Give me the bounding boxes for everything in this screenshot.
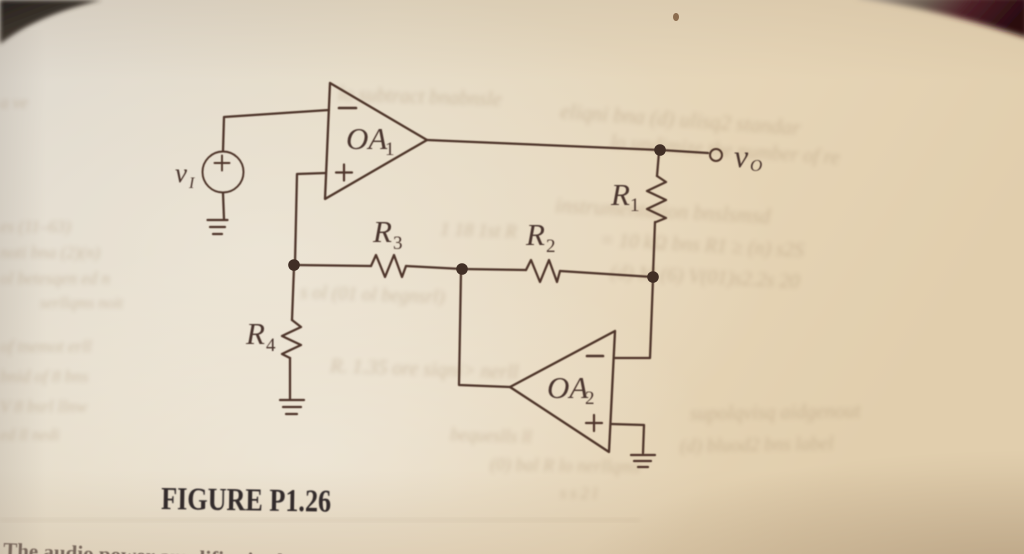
wire R4 bottom to ground	[289, 358, 291, 399]
svg-text:OA: OA	[346, 121, 388, 156]
wire OA2 output to node C	[459, 271, 510, 387]
svg-text:noti bna (2)(n): noti bna (2)(n)	[0, 243, 100, 262]
svg-text:es (11–63): es (11–63)	[0, 217, 71, 236]
svg-text:3: 3	[393, 233, 403, 254]
svg-text:supolqvisq aidgenout: supolqvisq aidgenout	[690, 400, 861, 425]
svg-text:V 8 bsrl llnw: V 8 bsrl llnw	[0, 397, 88, 416]
svg-text:1 18 1st R: 1 18 1st R	[440, 219, 518, 243]
svg-text:ed ll nedi: ed ll nedi	[0, 427, 60, 444]
svg-text:OA: OA	[547, 370, 589, 405]
svg-text:(d) bluod2 bns label: (d) bluod2 bns label	[680, 433, 834, 457]
plus sign inside vI	[215, 156, 230, 171]
plus sign OA2 input	[586, 415, 602, 431]
voltage source vI circle	[203, 152, 244, 193]
svg-text:bnid of 8 bns: bnid of 8 bns	[0, 367, 89, 386]
wire node A down to R1	[657, 152, 659, 176]
ground at OA2 plus	[631, 455, 655, 467]
wire OA2 plus input to ground stub	[611, 424, 644, 453]
plus sign OA1 input	[336, 165, 352, 181]
wire node D down to R4	[292, 267, 294, 320]
svg-text:2: 2	[585, 388, 595, 409]
svg-text:bequeslls ll: bequeslls ll	[450, 424, 532, 447]
wire OA1 output to node A	[427, 140, 660, 150]
resistor R2	[526, 260, 560, 282]
ground under vI	[208, 220, 228, 234]
wire node B down to OA2 minus input	[615, 279, 653, 358]
node B dot	[647, 271, 659, 283]
svg-text:serllqms noit: serllqms noit	[40, 295, 124, 312]
svg-text:v: v	[175, 158, 187, 188]
wire R2 to node C	[462, 269, 526, 270]
svg-text:(0) bal R lo nerllqms: (0) bal R lo nerllqms	[490, 454, 640, 478]
svg-text:s s 2 l: s s 2 l	[560, 485, 598, 503]
wire R3 to node D	[294, 265, 371, 266]
wire source bottom stub	[223, 193, 224, 219]
svg-text:2: 2	[546, 236, 556, 257]
op-amp OA2 triangle	[510, 331, 615, 452]
resistor R4	[282, 320, 301, 358]
svg-text:R: R	[525, 217, 545, 252]
wire R1 bottom to node B	[653, 222, 655, 275]
node D dot	[288, 259, 300, 271]
minus sign OA1 input	[339, 107, 356, 110]
wire node C to R3	[406, 266, 462, 269]
minus sign OA2 input	[587, 355, 603, 358]
output terminal circle vO	[710, 149, 722, 161]
wire node B to R2	[560, 271, 653, 277]
svg-text:R: R	[372, 214, 392, 249]
wire source top to OA1 minus input	[223, 110, 329, 151]
svg-text:R: R	[245, 316, 265, 351]
op-amp OA1 triangle	[325, 83, 427, 199]
resistor R3	[371, 255, 406, 277]
node A dot	[654, 144, 666, 156]
wire OA1 plus input to node D	[295, 173, 326, 263]
svg-text:of tnemot erll: of tnemot erll	[0, 337, 92, 356]
svg-text:1: 1	[630, 195, 640, 216]
svg-text:4: 4	[266, 335, 276, 356]
resistor R1	[647, 176, 666, 222]
svg-text:v: v	[734, 138, 749, 174]
svg-text:1: 1	[385, 139, 395, 160]
svg-text:I: I	[188, 175, 195, 192]
svg-text:FIGURE P1.26: FIGURE P1.26	[161, 480, 332, 519]
wire node A to output terminal	[660, 150, 708, 153]
ground under R4	[280, 400, 304, 414]
svg-text:O: O	[750, 156, 762, 175]
svg-text:R: R	[610, 177, 630, 212]
node C dot	[456, 263, 468, 275]
svg-text:ol betesqen ed n: ol betesqen ed n	[0, 269, 110, 288]
svg-text:a ve: a ve	[0, 93, 28, 112]
